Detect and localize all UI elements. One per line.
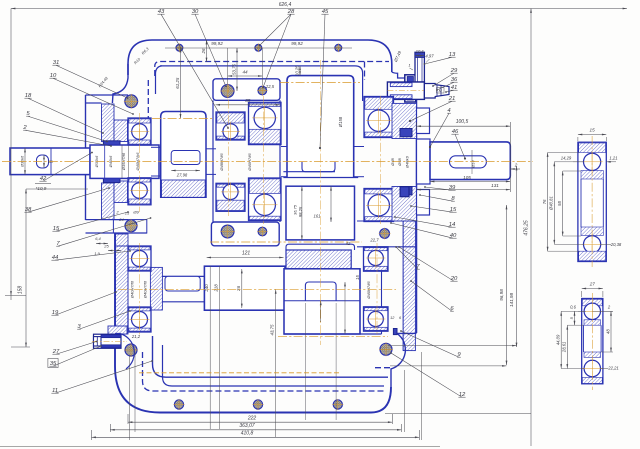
vdim 61.25	[180, 48, 182, 118]
callout 30	[195, 14, 226, 86]
dim 2 at shaft end	[510, 168, 520, 170]
overall width dimension 626.4	[11, 8, 627, 10]
cover inner left	[156, 66, 163, 94]
svg-text:27: 27	[589, 282, 596, 287]
svg-text:20,38: 20,38	[610, 242, 622, 247]
svg-text:31: 31	[53, 60, 60, 66]
bearing midwall-left upper	[216, 112, 245, 140]
right cap flange low	[417, 190, 430, 216]
callout 12	[391, 353, 462, 397]
callout 5	[28, 116, 107, 141]
callout 13	[425, 57, 453, 64]
right wall inner	[402, 103, 404, 139]
extension line right mid2	[390, 365, 507, 367]
detail1 vdim 4.081	[553, 162, 555, 245]
svg-text:98,25: 98,25	[298, 206, 303, 217]
pinion1 pitch line	[152, 117, 212, 119]
ext verticals bottom right	[403, 370, 405, 432]
callout 29	[433, 73, 454, 86]
corner lug bolt left	[125, 344, 137, 356]
svg-text:45: 45	[322, 9, 329, 15]
left border dim line	[10, 9, 12, 301]
callout 15L	[56, 212, 128, 231]
pinion keyway	[171, 151, 200, 165]
detail1 ball1	[584, 153, 601, 170]
detail1 vdim 58	[562, 171, 564, 236]
svg-text:0,6: 0,6	[570, 305, 576, 310]
midwall bottom bolt big	[221, 225, 234, 238]
detail2 mid walls	[583, 325, 585, 352]
callout 43	[161, 14, 228, 128]
vdim 26 cover	[206, 40, 208, 62]
detail1 ring hatch1	[581, 171, 603, 180]
pinion2 outline	[284, 269, 360, 334]
bottom dim 410.8	[92, 436, 420, 438]
detail1 vdim 76	[547, 153, 549, 252]
svg-text:11: 11	[52, 388, 58, 394]
svg-text:240: 240	[204, 284, 209, 293]
dim 131	[417, 189, 511, 191]
midwall bottom plate	[211, 222, 279, 246]
detail2 dim 27	[582, 288, 603, 290]
gear2 keyway	[302, 162, 335, 172]
ext verticals bottom mid	[304, 303, 306, 420]
bearing input-left upper	[128, 118, 151, 145]
left wall hatch upper2	[102, 183, 115, 220]
housing bottom outer	[115, 233, 391, 413]
vdim 43.75	[275, 289, 277, 437]
detail2 ring hatch1	[584, 320, 601, 325]
svg-text:10,6: 10,6	[416, 49, 425, 54]
callout 36	[437, 82, 454, 90]
svg-text:58: 58	[557, 201, 562, 206]
callout 4	[430, 113, 449, 147]
corner lug right	[391, 333, 417, 387]
svg-text:21,2: 21,2	[131, 334, 141, 339]
callout 3	[79, 311, 130, 329]
svg-text:43,75: 43,75	[269, 324, 274, 336]
svg-text:10,25: 10,25	[294, 65, 299, 76]
output shaft	[430, 142, 510, 180]
svg-text:18: 18	[25, 93, 32, 99]
left flange hidden	[147, 80, 149, 118]
callout 28	[263, 14, 291, 87]
input end vdim	[24, 148, 26, 175]
callout 14	[395, 217, 452, 227]
gear1 outline	[204, 266, 285, 310]
base inner line1	[153, 336, 389, 377]
detail1 outer rect	[578, 142, 606, 261]
bearing input-left lower	[128, 178, 151, 205]
right wall hatch low	[403, 221, 415, 351]
bottom dim 363.07	[110, 429, 401, 431]
bottom hidden right	[375, 367, 390, 369]
svg-text:46: 46	[452, 129, 459, 135]
callout 27	[56, 342, 97, 355]
left flange lines	[86, 94, 129, 96]
svg-text:626,4: 626,4	[279, 2, 292, 8]
shaft segment gear2-to-bearing	[354, 146, 364, 148]
gear2 web	[286, 186, 355, 240]
bearing inter-left upper	[128, 246, 151, 271]
intermediate shaft axis y=289.3	[118, 288, 396, 290]
svg-text:96,98: 96,98	[499, 289, 504, 301]
svg-text:44,09: 44,09	[556, 334, 561, 345]
gear2 outline	[287, 76, 354, 178]
svg-text:43: 43	[158, 9, 165, 15]
top screws dim 99.92 x2	[165, 47, 352, 49]
svg-text:22,21: 22,21	[607, 366, 618, 371]
callout 38	[28, 188, 109, 212]
svg-text:100,5: 100,5	[456, 119, 469, 125]
bearing inter-left lower	[128, 307, 151, 332]
svg-text:4,97: 4,97	[425, 54, 434, 59]
svg-text:53,75: 53,75	[231, 63, 236, 75]
dim 85 midwall	[216, 104, 280, 106]
svg-text:Ø48H7/f6: Ø48H7/f6	[219, 153, 224, 172]
bearing midwall-left lower	[216, 183, 245, 211]
svg-text:131: 131	[491, 183, 499, 188]
vertical axis midwall b2	[263, 96, 265, 224]
svg-text:14,29: 14,29	[561, 156, 572, 161]
input shaft body	[90, 145, 159, 178]
svg-text:Ø58: Ø58	[397, 157, 402, 166]
svg-text:21: 21	[448, 96, 456, 102]
input shaft end	[10, 148, 90, 175]
svg-text:44: 44	[52, 255, 59, 261]
right cap flange up	[417, 108, 430, 134]
svg-text:Ø48: Ø48	[390, 157, 395, 166]
callout 20	[399, 247, 454, 281]
right wall outer	[416, 98, 418, 333]
svg-text:10: 10	[50, 73, 57, 79]
callout 15R	[411, 206, 453, 212]
svg-text:48: 48	[605, 329, 610, 334]
intermediate spacer hatch	[150, 267, 162, 310]
svg-text:15: 15	[450, 207, 457, 213]
callout 42	[43, 153, 92, 182]
svg-text:40: 40	[450, 233, 457, 239]
svg-text:30: 30	[192, 9, 199, 15]
svg-text:141,98: 141,98	[509, 293, 514, 307]
base inner line2	[163, 345, 385, 386]
svg-text:99,92: 99,92	[211, 41, 223, 46]
left bearing cap hatch top	[114, 120, 128, 142]
detail1 ball2	[584, 236, 601, 253]
svg-text:20: 20	[450, 276, 458, 282]
detail1 mid walls	[580, 179, 582, 227]
long ext verticals gear1	[209, 266, 211, 429]
callout 40	[391, 223, 453, 238]
svg-text:Ø40,81: Ø40,81	[549, 196, 554, 211]
bearing inter-right upper	[364, 247, 389, 271]
svg-text:99,92: 99,92	[291, 41, 303, 46]
right seal lower	[400, 187, 412, 195]
right seal upper	[400, 129, 412, 137]
midwall verticals	[212, 100, 214, 222]
bearing midwall-right lower	[249, 178, 282, 221]
detail1 dim 15	[578, 134, 606, 136]
gear2 rim band	[286, 240, 355, 250]
detail2 axis	[591, 293, 593, 390]
svg-text:41: 41	[451, 85, 458, 91]
output shaft step	[417, 139, 431, 184]
svg-text:Ø48k6: Ø48k6	[405, 155, 410, 169]
svg-text:222: 222	[247, 415, 257, 421]
svg-text:218: 218	[214, 284, 219, 293]
callout 8	[420, 195, 453, 201]
base flange bolt2	[253, 400, 262, 409]
detail1 ring hatch2	[581, 227, 603, 236]
upper left flange bolt 31	[125, 95, 138, 108]
svg-text:Ø9: Ø9	[47, 160, 53, 164]
detail2 ball1	[584, 303, 600, 319]
svg-text:27: 27	[52, 349, 60, 355]
gear2 bore lines	[283, 171, 335, 173]
vdim 36 gear1	[241, 269, 243, 308]
ext verticals bottom left	[129, 356, 131, 440]
left wall hatch upper	[102, 104, 115, 142]
base flange bolt3	[333, 400, 342, 409]
pinion mesh hatch	[162, 180, 206, 197]
svg-text:61,25: 61,25	[175, 77, 180, 89]
dim 121 gear1	[207, 257, 284, 259]
gear2 rim hatch	[286, 250, 351, 269]
shaft segment midwall-to-gear2	[281, 146, 287, 148]
callout 11	[55, 361, 152, 393]
output keyway	[450, 156, 487, 168]
dim 27.98 input keyway	[171, 170, 200, 172]
detail2 vdim 44.09	[560, 311, 562, 368]
cover inner line	[160, 66, 363, 101]
right overall height dim 476.25	[530, 9, 532, 447]
detail2 outer rect	[582, 299, 603, 384]
callout 41	[446, 90, 454, 92]
mesh2 pitch line	[210, 241, 362, 243]
svg-text:Ø9: Ø9	[132, 209, 139, 214]
midwall bottom bolt small	[258, 227, 267, 236]
right cap hatch lower	[392, 187, 417, 222]
svg-text:2: 2	[514, 163, 518, 168]
seal square right	[400, 187, 409, 197]
bottom dim 222	[128, 421, 392, 423]
drain plug boss hatch	[108, 326, 127, 334]
detail2 hatch top	[582, 299, 602, 306]
svg-text:36: 36	[236, 286, 241, 292]
bolt ext verticals	[227, 48, 229, 84]
top cover outline	[128, 40, 392, 75]
bearing midwall-right upper	[249, 102, 282, 144]
svg-text:22,5: 22,5	[265, 84, 275, 89]
cover screw 2	[255, 44, 262, 51]
svg-text:1,21: 1,21	[609, 156, 617, 161]
svg-text:2: 2	[22, 125, 27, 131]
callout 19	[55, 292, 116, 315]
callout 44L	[55, 251, 130, 260]
callout 2	[25, 130, 111, 146]
svg-text:6,4: 6,4	[95, 236, 101, 241]
svg-text:76: 76	[542, 199, 547, 204]
detail2 vdim 48	[610, 311, 612, 352]
svg-text:15: 15	[355, 275, 360, 280]
svg-text:161: 161	[314, 214, 321, 219]
breather mount	[392, 72, 405, 78]
intermediate keyway	[165, 276, 200, 291]
cover screw 3	[335, 44, 342, 51]
detail1 axis	[591, 136, 593, 267]
right cap hatch upper	[392, 103, 417, 138]
breather cone	[424, 84, 449, 99]
left wall lower hatch	[116, 234, 129, 334]
intermediate shaft lines	[151, 275, 204, 277]
svg-text:105: 105	[463, 175, 471, 180]
vertical axis bearing col left	[139, 113, 141, 212]
callout 21	[410, 101, 452, 121]
split flange bolt left	[125, 220, 137, 232]
gear2 pitch line top	[280, 82, 360, 84]
vertical axis right bearing	[380, 96, 382, 224]
left bearing cap hatch bot	[114, 181, 128, 203]
vdim 53.75	[236, 48, 238, 91]
right dim 141.98	[516, 166, 518, 347]
vertical axis gear2	[319, 60, 321, 345]
svg-text:15: 15	[53, 226, 60, 232]
left dim arrow	[5, 295, 26, 297]
svg-text:35: 35	[50, 361, 57, 367]
svg-text:24: 24	[118, 217, 124, 222]
callout 6	[411, 281, 452, 311]
gear2 web dims	[301, 186, 303, 240]
vdim 10.25	[299, 66, 301, 76]
svg-text:85: 85	[245, 98, 251, 103]
right split flange	[357, 220, 417, 222]
svg-text:27,98: 27,98	[176, 173, 188, 178]
callout 35	[53, 346, 101, 366]
svg-text:22,7: 22,7	[369, 238, 379, 243]
callout 31	[56, 65, 128, 98]
detail1 hatch bottom	[579, 251, 606, 261]
left seal top	[103, 141, 120, 146]
cover screw 1	[176, 44, 183, 51]
left lower cap plate	[116, 246, 129, 332]
svg-text:39: 39	[449, 185, 456, 191]
vertical axis bearing col left low	[139, 243, 141, 336]
callout 7R	[396, 247, 418, 269]
detail2 vdim 28.61	[566, 325, 568, 368]
extension line right mid1	[388, 345, 517, 347]
right dim 96.98	[506, 205, 508, 365]
svg-text:19: 19	[52, 310, 59, 316]
dim 100.5	[417, 125, 511, 127]
midwall top plate	[213, 79, 280, 101]
main axis input/output shafts y=161.6	[2, 161, 533, 163]
svg-text:13: 13	[449, 52, 456, 58]
vertical axis right bearing low	[376, 243, 378, 334]
midwall top bolt big	[221, 85, 234, 98]
callout 10	[53, 78, 133, 114]
svg-text:410,8: 410,8	[241, 430, 254, 436]
callout 9	[401, 331, 459, 357]
pinion2 keyway	[305, 282, 336, 301]
shaft segment pinion-to-midwall	[206, 148, 216, 150]
base flange bolt1	[174, 400, 183, 409]
dim 44 midwall	[228, 75, 263, 77]
callout 46	[455, 134, 465, 158]
input pinion outline	[161, 112, 206, 198]
sheet edge bottom	[0, 446, 440, 448]
svg-text:26: 26	[201, 48, 206, 54]
oil level line	[139, 372, 340, 374]
bearing output-right lower	[364, 189, 394, 222]
output keyway dim	[471, 150, 473, 174]
pinion2 small dims	[320, 301, 322, 322]
detail1 hatch top	[579, 143, 606, 153]
svg-text:38: 38	[25, 207, 32, 213]
split flange left	[86, 219, 129, 221]
bottom hidden line	[143, 352, 386, 391]
bearing output-right upper	[364, 97, 394, 138]
detail2 ring hatch2	[584, 352, 601, 357]
svg-text:Ø40H7/f6: Ø40H7/f6	[247, 153, 252, 172]
extension line right bottom	[385, 413, 531, 415]
svg-text:363,07: 363,07	[239, 423, 255, 429]
svg-text:12: 12	[459, 392, 466, 398]
svg-text:Ø40H7/f6: Ø40H7/f6	[366, 281, 371, 300]
svg-text:29: 29	[450, 68, 458, 74]
svg-text:1: 1	[408, 63, 410, 68]
drain plug body	[94, 334, 122, 348]
pinion2 pitch bottom	[278, 336, 388, 338]
svg-text:14: 14	[449, 222, 456, 228]
pinion2 right part	[359, 269, 361, 334]
svg-text:*10,9: *10,9	[36, 186, 47, 191]
breather body	[387, 82, 424, 99]
svg-text:36,75: 36,75	[293, 204, 298, 215]
left seal bottom	[103, 178, 120, 183]
right split bolt	[380, 229, 390, 239]
left flange bulge	[112, 64, 128, 103]
svg-text:42: 42	[40, 176, 47, 182]
callout 39	[425, 187, 452, 190]
bearing inter-right lower	[364, 307, 389, 331]
detail2 hatch bottom	[582, 377, 602, 383]
svg-text:Ø158: Ø158	[338, 116, 343, 128]
svg-text:476,25: 476,25	[524, 220, 530, 236]
midwall top bolt small	[258, 86, 267, 95]
cover inner hidden line	[155, 62, 389, 81]
callout 18	[28, 98, 103, 133]
svg-text:28,61: 28,61	[562, 342, 567, 353]
callout 7L	[58, 218, 151, 246]
svg-text:158: 158	[18, 286, 24, 295]
detail2 ball2	[584, 360, 600, 376]
vertical axis midwall b1	[228, 84, 230, 216]
svg-text:44: 44	[242, 69, 248, 74]
dim 105	[430, 181, 510, 183]
callout 45	[320, 14, 325, 148]
breather stem	[415, 52, 424, 82]
svg-text:15: 15	[590, 128, 596, 133]
svg-text:36: 36	[451, 77, 458, 83]
svg-text:121: 121	[242, 250, 251, 256]
left height dim 158	[25, 189, 27, 347]
detail2 vdim 5	[574, 311, 576, 325]
